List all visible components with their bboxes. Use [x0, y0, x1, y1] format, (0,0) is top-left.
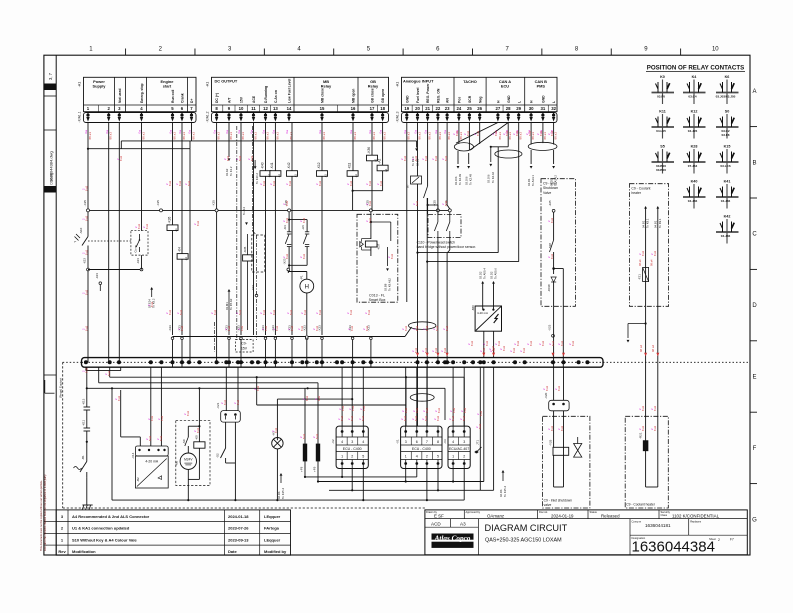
relay coil A2 — [377, 159, 388, 172]
svg-text:8 a3: 8 a3 — [415, 200, 419, 206]
svg-text:27: 27 — [496, 106, 501, 111]
svg-text:8 a3: 8 a3 — [451, 415, 455, 421]
svg-text:8 a3: 8 a3 — [653, 405, 657, 411]
svg-text:18: 18 — [380, 106, 385, 111]
svg-text:8 a3: 8 a3 — [305, 395, 309, 401]
svg-text:Not used: Not used — [118, 88, 122, 103]
svg-text:2024-01-18: 2024-01-18 — [228, 514, 249, 519]
svg-text:8 a3: 8 a3 — [425, 325, 429, 331]
svg-text:-X23: -X23 — [83, 258, 87, 264]
svg-text:Shutdown: Shutdown — [543, 186, 558, 190]
svg-text:1: 1 — [405, 455, 407, 459]
svg-text:10: 10 — [239, 106, 244, 111]
svg-text:8 a3: 8 a3 — [550, 425, 554, 431]
svg-text:8 a3: 8 a3 — [275, 325, 279, 331]
svg-text:7: 7 — [426, 440, 428, 444]
reference arrow feeding K40 — [251, 160, 259, 184]
svg-text:To K9.1: To K9.1 — [646, 218, 650, 228]
up-arrow references bottom — [277, 470, 507, 499]
rotated disclaimer small print outside frame — [39, 474, 47, 551]
svg-text:AN: AN — [446, 98, 450, 103]
relay contact K41 — [716, 180, 739, 209]
svg-text:8 a3: 8 a3 — [84, 185, 88, 191]
svg-text:8 a3: 8 a3 — [159, 435, 163, 441]
up-arrow reference 02.E14 — [148, 287, 156, 308]
svg-text:Rev: Rev — [58, 549, 66, 554]
svg-text:-X25: -X25 — [211, 200, 215, 207]
relay contact K0 — [652, 75, 675, 104]
svg-text:8 a3: 8 a3 — [368, 180, 372, 186]
svg-text:4-20 mA: 4-20 mA — [477, 311, 488, 315]
svg-text:8 a3: 8 a3 — [434, 155, 438, 161]
svg-text:88 a3: 88 a3 — [543, 132, 547, 140]
svg-text:8 a3: 8 a3 — [303, 309, 307, 315]
relay contact K6 — [716, 75, 739, 104]
svg-text:REG. Power: REG. Power — [426, 83, 430, 103]
svg-text:98 a4: 98 a4 — [639, 345, 643, 352]
svg-text:-Y25: -Y25 — [549, 439, 553, 446]
svg-text:L: L — [517, 101, 521, 103]
small dashed box left of smart box — [252, 235, 265, 272]
left margin strip with drawing file label — [44, 72, 56, 545]
coil drop wires — [266, 161, 383, 335]
svg-text:valve: valve — [544, 503, 552, 507]
svg-text:Smart Box: Smart Box — [369, 298, 386, 302]
switch S2 — [216, 422, 237, 501]
row letters A-G on right margin — [750, 89, 757, 523]
svg-text:-X25: -X25 — [156, 200, 160, 207]
C0 15V dashed box — [236, 340, 254, 353]
svg-text:4-20 mA: 4-20 mA — [145, 460, 159, 464]
svg-text:To K15.4: To K15.4 — [281, 488, 285, 499]
svg-text:8 a3: 8 a3 — [84, 215, 88, 221]
svg-text:8 a3: 8 a3 — [497, 340, 501, 346]
svg-text:Date: Date — [228, 549, 237, 554]
svg-text:8 a3: 8 a3 — [236, 399, 240, 405]
svg-text:-K40: -K40 — [260, 162, 264, 169]
svg-text:3: 3 — [405, 440, 407, 444]
svg-text:88 a3: 88 a3 — [217, 132, 221, 140]
svg-text:S5: S5 — [660, 145, 665, 149]
svg-text:8 a3: 8 a3 — [262, 180, 266, 186]
chassis ground symbol — [82, 505, 93, 510]
column tick numbers 1-10 — [89, 47, 719, 56]
svg-text:H: H — [305, 285, 309, 291]
svg-text:K6: K6 — [725, 75, 730, 79]
switch contact above C110 — [424, 180, 438, 215]
svg-text:8 a3: 8 a3 — [256, 385, 260, 391]
svg-text:1102 K/CONFIDENTIAL: 1102 K/CONFIDENTIAL — [672, 513, 720, 518]
C9 coolant heater dash-dot box (upper) — [629, 184, 668, 307]
svg-text:8 a3: 8 a3 — [84, 367, 88, 373]
svg-text:8 a3: 8 a3 — [238, 309, 242, 315]
svg-text:88 a3: 88 a3 — [229, 132, 233, 140]
svg-text:GB open: GB open — [381, 89, 385, 103]
twisted pair to ECU connector — [409, 184, 436, 426]
svg-text:8 a3: 8 a3 — [117, 395, 121, 401]
corridor relay coil — [243, 234, 254, 330]
svg-text:B7: B7 — [406, 184, 410, 188]
contact S4 double-break — [283, 212, 291, 265]
svg-text:8 a3: 8 a3 — [415, 407, 419, 413]
svg-text:8 a3: 8 a3 — [516, 340, 520, 346]
svg-text:8 a3: 8 a3 — [425, 407, 429, 413]
svg-text:SCR: SCR — [468, 95, 472, 103]
svg-text:A3: A3 — [460, 522, 466, 527]
svg-text:8 a3: 8 a3 — [226, 155, 230, 161]
svg-text:-X20: -X20 — [544, 392, 548, 399]
svg-text:4: 4 — [416, 455, 418, 459]
svg-text:LEqquer: LEqquer — [264, 537, 281, 542]
svg-text:5: 5 — [437, 455, 439, 459]
svg-text:04.J36: 04.J36 — [721, 234, 731, 238]
svg-text:2: 2 — [351, 455, 353, 459]
svg-text:U1 & KA1 connection updated: U1 & KA1 connection updated — [72, 526, 130, 531]
svg-text:8 a3: 8 a3 — [404, 407, 408, 413]
svg-text:(Nega) Equipot: (Nega) Equipot — [59, 378, 63, 398]
svg-text:8 a3: 8 a3 — [414, 415, 418, 421]
smart box internal loop + down reference — [370, 221, 392, 291]
svg-text:8 a3: 8 a3 — [444, 200, 448, 206]
svg-text:8 a3: 8 a3 — [227, 325, 231, 331]
svg-text:5: 5 — [362, 455, 364, 459]
svg-text:8 a3: 8 a3 — [550, 130, 554, 136]
emergency stop switch S10 — [74, 227, 131, 269]
relay coil K26 — [167, 216, 178, 231]
svg-text:8 a3: 8 a3 — [414, 347, 418, 353]
svg-text:-X23: -X23 — [548, 324, 552, 331]
svg-text:11: 11 — [251, 106, 256, 111]
fuse F8 — [300, 388, 307, 477]
svg-text:8 a3: 8 a3 — [196, 427, 200, 433]
svg-text:22: 22 — [436, 106, 441, 111]
svg-text:S0: S0 — [725, 110, 730, 114]
svg-text:8 a3: 8 a3 — [365, 325, 369, 331]
svg-text:1636044181: 1636044181 — [645, 523, 671, 528]
svg-text:8 a3: 8 a3 — [150, 301, 154, 307]
svg-text:8 a3: 8 a3 — [641, 405, 645, 411]
terminal strip X/A1.2 — [206, 111, 389, 122]
svg-text:88 a3: 88 a3 — [459, 132, 463, 140]
svg-text:2: 2 — [718, 538, 720, 542]
svg-text:88 a3: 88 a3 — [498, 132, 502, 140]
svg-text:Relay: Relay — [368, 84, 379, 89]
svg-text:POSITION OF RELAY CONTACTS: POSITION OF RELAY CONTACTS — [647, 65, 745, 72]
svg-text:4: 4 — [452, 440, 454, 444]
svg-text:8 a3: 8 a3 — [455, 130, 459, 136]
relay coil K41 — [270, 162, 281, 177]
svg-text:-X/A1.1: -X/A1.1 — [78, 111, 82, 122]
svg-text:8 a3: 8 a3 — [285, 253, 289, 259]
fuse F9 — [313, 383, 320, 482]
svg-text:88 a3: 88 a3 — [191, 132, 195, 140]
svg-text:B: B — [752, 160, 756, 166]
svg-text:8 a3: 8 a3 — [84, 325, 88, 331]
X23 plug under S10 — [83, 258, 143, 363]
svg-text:88 a3: 88 a3 — [554, 132, 558, 140]
svg-text:-K37: -K37 — [377, 243, 381, 250]
relay coil K36 — [367, 147, 378, 162]
svg-text:8 a3: 8 a3 — [84, 289, 88, 295]
transducer X14 4-20mA — [131, 446, 168, 488]
svg-text:To A14.1: To A14.1 — [531, 175, 535, 186]
svg-text:8 a3: 8 a3 — [466, 130, 470, 136]
svg-text:C9 - Inlet: C9 - Inlet — [543, 181, 557, 185]
svg-text:8 a3: 8 a3 — [478, 423, 482, 429]
svg-text:88 a3: 88 a3 — [109, 132, 113, 140]
svg-text:-A1: -A1 — [206, 82, 210, 88]
svg-text:To K2.49: To K2.49 — [469, 174, 473, 185]
svg-text:C0-: C0- — [241, 342, 246, 346]
wire number tags below terminal strips — [84, 130, 557, 140]
svg-text:8 a3: 8 a3 — [361, 415, 365, 421]
C9 inlet shutdown valve dash-dot box (upper) — [541, 179, 575, 307]
svg-text:-K36: -K36 — [367, 147, 371, 154]
svg-text:8 a3: 8 a3 — [288, 180, 292, 186]
dashed equipment enclosure — [59, 362, 426, 508]
svg-text:+F9: +F9 — [313, 466, 317, 472]
svg-text:98 a4: 98 a4 — [650, 259, 654, 266]
svg-text:Modification: Modification — [72, 549, 96, 554]
svg-text:Low Fuel Level: Low Fuel Level — [288, 79, 292, 103]
svg-text:To K15.4: To K15.4 — [503, 486, 507, 497]
svg-text:2024-01-19: 2024-01-19 — [551, 513, 574, 518]
svg-text:8 a3: 8 a3 — [289, 309, 293, 315]
svg-text:DC OUTPUT: DC OUTPUT — [215, 79, 238, 84]
svg-text:FArtega: FArtega — [264, 526, 280, 531]
svg-text:Run coil: Run coil — [171, 90, 175, 103]
svg-text:-X25: -X25 — [83, 200, 87, 207]
svg-text:8 a3: 8 a3 — [317, 395, 321, 401]
svg-text:Emerg. stop: Emerg. stop — [140, 83, 144, 103]
svg-text:8 a3: 8 a3 — [522, 347, 526, 353]
svg-text:To K9.1: To K9.1 — [658, 218, 662, 228]
svg-text:8 a3: 8 a3 — [550, 217, 554, 223]
wires above ECU blocks — [342, 367, 464, 426]
svg-text:8 a3: 8 a3 — [390, 253, 394, 259]
svg-text:Doc.rel.: Doc.rel. — [539, 510, 548, 514]
svg-text:8 a3: 8 a3 — [274, 427, 278, 433]
C9 coolant heater dash-dot box (lower) — [625, 416, 668, 508]
svg-text:-K35: -K35 — [243, 246, 247, 253]
svg-text:88 a3: 88 a3 — [253, 132, 257, 140]
wires into X14 — [121, 367, 162, 446]
svg-text:8 a3: 8 a3 — [494, 130, 498, 136]
svg-text:25: 25 — [467, 106, 472, 111]
svg-text:88 a3: 88 a3 — [322, 132, 326, 140]
svg-text:-X23: -X23 — [251, 285, 255, 291]
svg-text:-B1: -B1 — [81, 455, 85, 460]
svg-text:QAS+250-325 AGC150 LOXAM: QAS+250-325 AGC150 LOXAM — [485, 538, 562, 544]
svg-text:F7: F7 — [730, 538, 734, 542]
svg-text:-A1: -A1 — [396, 82, 400, 88]
svg-text:A1: A1 — [174, 228, 178, 232]
svg-text:04.J26: 04.J26 — [688, 129, 698, 133]
relay coil K37 with diode — [360, 239, 381, 251]
svg-text:8 a3: 8 a3 — [502, 345, 506, 351]
svg-text:-X2: -X2 — [331, 439, 335, 444]
up-arrow reference 03.M1 — [225, 289, 233, 335]
svg-text:8 a3: 8 a3 — [290, 325, 294, 331]
Atlas Copco logo — [432, 534, 474, 548]
svg-text:8 a3: 8 a3 — [560, 340, 564, 346]
svg-text:-D018: -D018 — [547, 284, 551, 292]
svg-text:A1: A1 — [354, 174, 358, 178]
svg-text:-X3: -X3 — [443, 439, 447, 444]
connector block A1 Analogue INPUT / TACHO / CAN A ECU / CAN B PMS — [396, 77, 558, 111]
svg-text:88 a3: 88 a3 — [428, 132, 432, 140]
svg-text:8 a3: 8 a3 — [262, 309, 266, 315]
15V circuit dash-dot enclosure — [237, 126, 257, 340]
up-arrow references feeding transducer — [479, 268, 498, 310]
svg-text:F: F — [753, 446, 757, 452]
svg-text:8 a3: 8 a3 — [300, 325, 304, 331]
left frame stub wire — [45, 380, 55, 393]
svg-text:8 a3: 8 a3 — [285, 217, 289, 223]
svg-text:8 a3: 8 a3 — [240, 325, 244, 331]
svg-text:8: 8 — [437, 440, 439, 444]
svg-text:8 a3: 8 a3 — [424, 415, 428, 421]
svg-text:03.J03/03.J05: 03.J03/03.J05 — [716, 95, 736, 99]
svg-text:-F21: -F21 — [638, 274, 642, 280]
svg-text:-S10: -S10 — [79, 227, 83, 234]
svg-text:8 a3: 8 a3 — [515, 130, 519, 136]
svg-text:C.As on: C.As on — [274, 90, 278, 103]
svg-text:8 a3: 8 a3 — [436, 415, 440, 421]
horizontal link wires top area — [87, 141, 450, 362]
svg-text:8 a3: 8 a3 — [653, 425, 657, 431]
pressure transducer B40 4-20mA (upper) — [471, 305, 502, 358]
svg-text:8 a3: 8 a3 — [250, 155, 254, 161]
svg-text:A: A — [752, 89, 756, 95]
svg-text:K12: K12 — [691, 110, 698, 114]
designation titles — [485, 523, 568, 543]
svg-text:8 a3: 8 a3 — [213, 309, 217, 315]
svg-text:A1: A1 — [277, 174, 281, 178]
relay coil K12 — [317, 162, 328, 177]
svg-text:8 a3: 8 a3 — [349, 309, 353, 315]
svg-text:10: 10 — [712, 47, 719, 53]
contact H6 parallel branch — [288, 220, 309, 267]
svg-text:E SF: E SF — [434, 513, 444, 518]
svg-text:Comp w: Comp w — [632, 519, 642, 523]
svg-text:8 a3: 8 a3 — [223, 399, 227, 405]
svg-text:17: 17 — [370, 106, 375, 111]
C9 inlet shutdown valve dash-dot box (lower) — [543, 411, 590, 508]
svg-text:To K5.A2: To K5.A2 — [229, 298, 233, 310]
svg-text:8 a3: 8 a3 — [302, 253, 306, 259]
svg-text:-P1: -P1 — [300, 275, 304, 280]
svg-text:-K13: -K13 — [82, 398, 86, 405]
terminal strip X/A1.3 — [396, 111, 558, 122]
svg-text:03.F8: 03.F8 — [722, 133, 730, 137]
heater wires to lower box + branch arrow — [627, 306, 658, 416]
svg-text:Analogue INPUT: Analogue INPUT — [403, 79, 434, 84]
dash-dot boundary near DC+ wire — [214, 322, 216, 352]
svg-text:8 a3: 8 a3 — [437, 407, 441, 413]
svg-text:8 a3: 8 a3 — [482, 347, 486, 353]
svg-text:GB close: GB close — [371, 88, 375, 103]
svg-text:GND: GND — [405, 95, 409, 103]
reference arrow end of D+ line — [411, 141, 420, 166]
svg-text:8 a3: 8 a3 — [539, 130, 543, 136]
svg-text:88 a3: 88 a3 — [265, 132, 269, 140]
svg-text:4: 4 — [341, 440, 343, 444]
svg-text:ECU - C400: ECU - C400 — [343, 447, 362, 451]
svg-text:-K11: -K11 — [82, 420, 86, 426]
svg-text:-K41: -K41 — [270, 162, 274, 169]
svg-text:8 a3: 8 a3 — [557, 385, 561, 391]
relay contact S5 — [652, 145, 675, 174]
svg-text:1636044384: 1636044384 — [632, 539, 715, 556]
svg-text:-X23: -X23 — [168, 325, 172, 332]
svg-text:88 a3: 88 a3 — [519, 132, 523, 140]
svg-text:ECU/AC-407: ECU/AC-407 — [449, 447, 469, 451]
svg-text:88 a3: 88 a3 — [241, 132, 245, 140]
svg-text:To K2.42: To K2.42 — [491, 172, 495, 183]
number fields — [630, 519, 747, 556]
svg-text:8 a3: 8 a3 — [350, 325, 354, 331]
lower interconnect wires — [86, 367, 464, 426]
reference arrow at wire 9 — [225, 158, 233, 176]
svg-text:3: 3 — [463, 440, 465, 444]
sheet border frame — [44, 55, 750, 555]
svg-text:C110 - Powerhead switch: C110 - Powerhead switch — [417, 241, 455, 245]
svg-text:-X/A1.3: -X/A1.3 — [396, 111, 400, 122]
svg-text:PMS: PMS — [537, 84, 546, 89]
svg-text:03.B06: 03.B06 — [656, 168, 666, 172]
svg-text:+F8: +F8 — [300, 466, 304, 472]
revision table — [56, 510, 290, 555]
svg-text:C: C — [752, 232, 757, 238]
svg-text:8 a3: 8 a3 — [462, 415, 466, 421]
svg-text:30: 30 — [529, 106, 534, 111]
svg-text:8 a3: 8 a3 — [119, 155, 123, 161]
svg-text:88 a3: 88 a3 — [182, 132, 186, 140]
svg-text:98 a4: 98 a4 — [638, 259, 642, 266]
svg-text:Crank: Crank — [181, 93, 185, 103]
svg-text:8 a3: 8 a3 — [160, 415, 164, 421]
svg-text:88 a3: 88 a3 — [407, 132, 411, 140]
ECU connector C400F (4 pin) — [396, 426, 442, 468]
svg-text:8 a3: 8 a3 — [403, 155, 407, 161]
relay contact K28 — [683, 145, 706, 174]
svg-text:8 a3: 8 a3 — [434, 347, 438, 353]
svg-text:A/T: A/T — [228, 97, 232, 103]
fuel pump dashed box with K20 and M24V — [175, 388, 211, 501]
lower -X23 connector rail — [168, 324, 554, 367]
svg-text:8 a3: 8 a3 — [285, 200, 289, 206]
svg-text:07.J63: 07.J63 — [688, 164, 698, 168]
svg-text:K28: K28 — [691, 145, 698, 149]
svg-text:To A50.6: To A50.6 — [494, 268, 498, 279]
svg-text:ECU: ECU — [501, 84, 509, 89]
svg-text:8 a3: 8 a3 — [84, 249, 88, 255]
svg-text:4: 4 — [362, 440, 364, 444]
svg-text:heater: heater — [631, 191, 641, 195]
svg-text:D: D — [752, 303, 757, 309]
svg-text:Supply: Supply — [93, 84, 107, 89]
svg-text:S10 Without Key & A4 Colour Va: S10 Without Key & A4 Colour Vale — [72, 537, 137, 542]
svg-text:15V: 15V — [240, 96, 244, 103]
svg-text:8 a3: 8 a3 — [272, 309, 276, 315]
svg-text:8 a3: 8 a3 — [318, 309, 322, 315]
svg-text:-X25: -X25 — [548, 200, 552, 206]
svg-text:-K42: -K42 — [287, 162, 291, 169]
svg-text:8 a3: 8 a3 — [148, 435, 152, 441]
svg-text:-K0: -K0 — [195, 435, 199, 440]
svg-text:start: start — [163, 84, 172, 89]
